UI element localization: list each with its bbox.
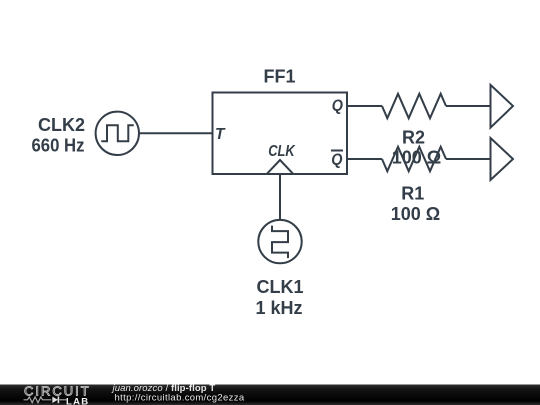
svg-text:CLK2: CLK2 [38,115,85,135]
wire FF1.Q to R2 [347,105,382,107]
footer bar [0,385,540,405]
svg-text:CLK1: CLK1 [256,277,303,297]
CircuitLab logo waveform [24,397,52,403]
wire CLK2 to FF1.T [139,132,212,134]
svg-text:http://circuitlab.com/cg2ezza: http://circuitlab.com/cg2ezza [115,393,245,404]
svg-text:Q: Q [332,98,343,115]
svg-text:1 kHz: 1 kHz [255,298,302,318]
clock source CLK2 [96,112,139,155]
CircuitLab logo diode [52,397,58,403]
svg-text:Q: Q [331,152,342,169]
wire R2 to arrow [446,105,490,107]
resistor R1 [382,147,446,171]
svg-text:100 Ω: 100 Ω [391,204,440,224]
output arrow (Q net) [491,85,514,128]
svg-text:R2: R2 [402,128,425,148]
resistor R2 [382,94,446,118]
clock source CLK1 [258,220,301,263]
CLK1 square-wave symbol (rotated) [272,226,288,259]
clock edge triangle [267,160,293,174]
output arrow (Qbar net) [491,138,514,180]
svg-text:LAB: LAB [66,396,89,405]
svg-text:T: T [215,126,226,143]
svg-text:R1: R1 [401,183,424,203]
wire FF1.Qbar to R1 [347,158,382,160]
svg-text:CLK: CLK [268,143,296,160]
svg-text:660 Hz: 660 Hz [32,136,85,156]
svg-text:FF1: FF1 [263,67,295,87]
wire R1 to arrow [446,158,490,160]
Qbar overline [331,150,343,152]
flip-flop FF1 body [213,93,348,175]
CLK2 square-wave symbol [101,125,134,141]
wire FF1.CLK to CLK1 [279,175,281,221]
